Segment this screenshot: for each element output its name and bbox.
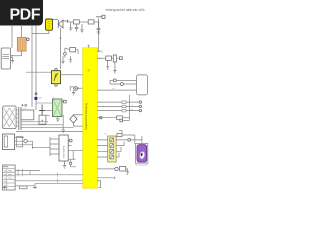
glow plug E1 (yellow flame box) — [55, 68, 57, 70]
IC right pin 2 — [68, 145, 71, 147]
wire harness y106.4 — [97, 105, 139, 107]
tick marks on X4 wires — [18, 169, 23, 176]
wire orange box top feed — [21, 26, 23, 38]
wires into remote box — [116, 80, 136, 84]
pin circle on battery — [27, 38, 30, 41]
pin circle — [24, 140, 27, 143]
X2 wires right jogs — [116, 140, 130, 157]
wire long y131.6 to bar — [16, 131, 83, 133]
wire diode top to bar — [73, 114, 83, 116]
small resistor above glow plug right — [70, 48, 76, 52]
hook curl under IC — [69, 159, 76, 163]
node dot — [32, 147, 34, 149]
wire long rails pair to LED — [32, 56, 36, 110]
hook bottom right of bar — [97, 181, 100, 188]
bottom tiny component a — [3, 186, 8, 189]
resistor R3 — [106, 56, 112, 60]
ground under C2 — [97, 32, 100, 35]
wire y72 horizontal into glow plug — [26, 71, 51, 73]
wire from pins down — [63, 55, 65, 58]
wire harness y110.6 — [97, 110, 139, 112]
pin circle on rail — [35, 93, 37, 95]
svg-text:sw: sw — [112, 88, 115, 90]
wire diode bottom to bar — [73, 123, 83, 126]
diode D2 diamond — [70, 115, 77, 123]
remote control box (rounded) — [137, 75, 148, 95]
wire top rail from fuse to right — [49, 20, 68, 22]
J1 pin stub right top — [97, 50, 100, 52]
wire to bar bottom — [35, 184, 84, 186]
svg-text:dosierpumpe: dosierpumpe — [135, 164, 148, 167]
svg-text:Hauptstecker Belegung: Hauptstecker Belegung — [84, 102, 88, 130]
terminal block X4 (table) — [3, 165, 16, 190]
wire right y58.6 chain — [101, 57, 106, 59]
control box K1 — [1, 48, 10, 69]
vertical rail right x129.4 — [128, 95, 130, 121]
wire y130.3 node — [117, 133, 122, 136]
wire glow plug to main connector — [61, 74, 83, 76]
ground under K1 pin — [11, 61, 14, 64]
dosing pump housing — [135, 144, 147, 164]
X2 wires from bar — [97, 140, 107, 157]
motor M1 — [74, 87, 78, 91]
svg-text:steuergerat: steuergerat — [63, 146, 66, 158]
pump eye — [139, 151, 145, 159]
PDF badge — [0, 0, 43, 26]
ground g4 — [69, 56, 72, 62]
svg-text:C: C — [101, 50, 103, 54]
small box on X3 wires — [17, 137, 23, 147]
X4 wires right — [15, 170, 40, 172]
wires from strip to right — [21, 121, 48, 123]
wire y168.9 chain — [97, 168, 115, 170]
wire K1 pin right — [10, 58, 12, 61]
J1 pin stub right 2 — [97, 57, 100, 59]
D node box — [120, 119, 123, 122]
hook wire left of motor — [70, 87, 74, 91]
svg-text:(R: (R — [88, 70, 91, 73]
wire y117.7 with pin — [97, 117, 116, 119]
node junction dot — [11, 55, 13, 57]
LED blue — [35, 97, 38, 100]
connector strip vertical pair — [19, 107, 21, 130]
pin circles pair — [64, 52, 67, 55]
wire gray y103 to green box — [36, 102, 52, 104]
wire rails x32 x36 from badge — [32, 26, 36, 56]
wire right rail to bar top — [98, 22, 100, 51]
wire right y150.7 — [68, 151, 83, 160]
resistor R4 — [120, 166, 126, 171]
capacitor C2 polarized — [97, 18, 101, 32]
ground under IC — [63, 161, 66, 168]
ground under R3 — [106, 60, 109, 69]
wire fuse bottom — [32, 30, 49, 33]
X2 pin squares — [110, 138, 114, 142]
svg-text:PDF: PDF — [10, 7, 41, 24]
svg-text:ws: ws — [131, 109, 134, 111]
svg-text:r: r — [101, 57, 102, 61]
ground under inductor — [113, 62, 116, 73]
inductor vertical element — [113, 55, 116, 62]
IC U1 vertical — [59, 135, 68, 161]
dosing pump (purple) — [137, 145, 147, 162]
ground under motor — [72, 90, 75, 95]
bottom tiny component b — [20, 186, 28, 189]
node dot at motor — [77, 87, 79, 89]
battery B1 (hatched box) — [17, 38, 26, 52]
ground under node between R1 — [69, 22, 73, 31]
wire vertical x60.5 to glow plug — [60, 28, 62, 69]
IC right pin to circle — [68, 140, 69, 142]
bottom tiny component c — [33, 186, 37, 189]
svg-text:eberspacher airtronic d2s: eberspacher airtronic d2s — [106, 7, 145, 12]
small boxes on harness wires — [122, 101, 126, 104]
ground right chain — [126, 172, 129, 175]
pin right of green box — [62, 101, 64, 103]
capacitor C1 under rail — [75, 24, 78, 32]
wire top rail ticks — [66, 20, 69, 24]
fuse F1 — [46, 19, 53, 30]
node squares right of X2 — [128, 139, 130, 141]
main connector J1 (big yellow bar) — [83, 48, 98, 188]
wire left rail x12 — [11, 26, 13, 48]
wire long y90 to remote box — [97, 89, 136, 91]
ground g3 — [61, 58, 64, 64]
blower assembly box with X — [3, 106, 16, 129]
wire vertical x63 with ground — [62, 115, 64, 130]
resistor R1 — [74, 20, 80, 24]
wire y177.8 — [97, 176, 115, 179]
wire pump top — [130, 136, 142, 145]
X3 pin wires — [15, 137, 33, 144]
IC left bus — [49, 137, 51, 156]
J1 top notch mark — [87, 45, 89, 48]
wire battery bottom to junction — [12, 51, 22, 56]
connector X3 box — [2, 134, 14, 150]
ground under node between R1 R2 — [80, 24, 84, 33]
switch S1 cross junction — [39, 105, 45, 117]
connector pin stub top right — [96, 16, 102, 18]
ground under green box — [56, 117, 59, 122]
wire horizontal y22 across top components — [69, 21, 99, 23]
resistor R2 — [88, 20, 94, 24]
small plus and pin — [21, 104, 23, 106]
sensor box S2 — [39, 115, 46, 124]
diode D1 — [58, 20, 63, 28]
wire harness y102 — [97, 101, 139, 103]
wire motor to bar — [78, 87, 83, 89]
IC left pins — [50, 139, 59, 154]
